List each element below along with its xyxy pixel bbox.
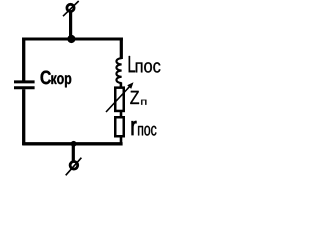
impedance Zп box [115,88,124,111]
label Cкор [41,71,72,88]
label rпос [132,121,157,136]
junction node (bottom) [71,141,77,147]
capacitor Cкор bottom plate [14,86,35,89]
variability arrow head [127,82,133,89]
terminal T1 slash [63,1,79,16]
resistor rпос box [115,117,124,136]
inductor Lпос coil [116,58,121,83]
wire bottom bus to bottom terminal [72,144,75,161]
junction node (top) [67,35,75,43]
wire Zп box to rпос box [120,111,123,118]
variability arrow through Zп [106,86,130,112]
wire right branch upper [120,38,123,60]
wire top terminal to top bus [69,11,72,40]
wire left branch lower [22,89,25,145]
wire rпос box to bottom bus [120,136,123,145]
label Lпос [129,56,161,73]
label Zп [130,91,146,105]
terminal T2 (bottom, circle with slash) [70,162,78,170]
wire bottom bus [22,142,122,145]
wire coil to Zп box [120,83,123,88]
terminal T1 (top, circle with slash) [67,4,74,11]
wire left branch upper [22,38,25,82]
wire top bus [22,37,123,40]
capacitor Cкор top plate [14,80,35,83]
terminal T2 slash [66,158,82,176]
